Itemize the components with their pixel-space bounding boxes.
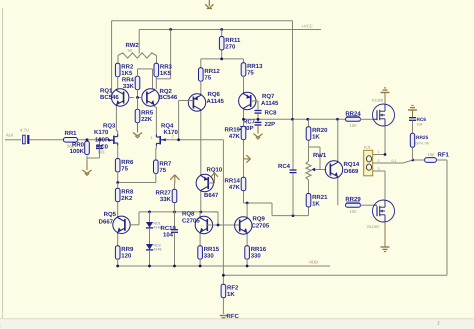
wire T right to RR13 [243, 59, 245, 68]
svg-text:RR8: RR8 [121, 189, 134, 196]
junction RQ9 collector node [246, 202, 249, 205]
mosfet J162 [367, 200, 395, 229]
wire RR27 top stub [174, 184, 176, 190]
wire RQ5 base jog [130, 212, 139, 225]
jfet RQ4 [156, 123, 178, 147]
wire RW2 left lead down [117, 56, 119, 64]
junction input node RR0 [86, 138, 89, 141]
svg-text:B647: B647 [204, 192, 219, 199]
power arrow RQ10 [211, 173, 218, 180]
svg-text:RR19: RR19 [225, 127, 241, 134]
svg-text:330: 330 [204, 253, 215, 260]
junction RQ6 collector node [199, 211, 202, 214]
junction drive rail RQ14 [336, 118, 339, 121]
resistor RR2 [115, 63, 134, 77]
sheet border bottom edge [0, 314, 474, 329]
svg-text:RR0: RR0 [72, 141, 85, 148]
pin label RQ4 drain [172, 135, 174, 139]
pin label wire 0.1 [392, 159, 397, 163]
junction bus RC10 [173, 265, 176, 268]
power arrow RR27 top [170, 175, 179, 184]
junction bus RR15 [199, 265, 202, 268]
junction drive rail RR20 [306, 118, 309, 121]
resistor RR1 [64, 130, 78, 148]
junction RR11 bottom [220, 58, 223, 61]
wire RQ3 drain [116, 131, 117, 134]
resistor RR16 [245, 246, 267, 260]
svg-text:1K: 1K [312, 134, 320, 141]
wire VCC feed down [156, 30, 170, 79]
wire RC6 to RR25 [412, 120, 414, 132]
wire RR11 top [221, 30, 223, 37]
svg-text:D669: D669 [344, 168, 359, 175]
svg-text:1W: 1W [428, 152, 434, 157]
wire sources rail [118, 174, 156, 183]
wire RW2 wiper up [138, 30, 140, 54]
svg-text:RQ3: RQ3 [103, 123, 116, 130]
capacitor RC10 [161, 212, 179, 266]
wire RQ6 collector down [200, 111, 202, 212]
svg-text:50: 50 [128, 48, 133, 53]
svg-text:2: 2 [378, 159, 380, 163]
svg-text:RF2: RF2 [227, 285, 239, 292]
svg-text:RR13: RR13 [247, 63, 263, 70]
junction lower rail RC4 [292, 214, 295, 217]
svg-text:100K: 100K [70, 148, 85, 155]
net label input [6, 133, 13, 138]
mosfet K1058 [372, 99, 395, 127]
svg-text:RFC: RFC [227, 313, 240, 320]
wire between diodes [149, 228, 151, 244]
svg-text:75: 75 [247, 70, 254, 77]
pin label 1 [378, 150, 380, 154]
svg-text:D667: D667 [99, 219, 114, 226]
resistor RR11 [219, 37, 241, 51]
fuse RF1 [425, 152, 450, 163]
svg-text:1: 1 [151, 136, 153, 140]
transistor RQ5 bias [99, 211, 131, 234]
capacitor RC4 [278, 119, 297, 215]
wire top loop right vertical [292, 21, 294, 120]
wire RR2 to RQ1 collector [117, 77, 119, 90]
svg-text:2SJ162: 2SJ162 [367, 225, 380, 229]
svg-text:RR7: RR7 [159, 160, 172, 167]
wire RR29 right [360, 204, 374, 206]
power arrow mid [244, 155, 251, 163]
wire RR6 bottom corner [117, 172, 119, 183]
junction drive rail bootstrap [291, 118, 294, 121]
wire RR3 to RQ2 collector [155, 77, 157, 90]
junction output node [412, 159, 415, 162]
potentiometer RW1 [306, 147, 327, 180]
wire RQ4 source [155, 146, 158, 160]
svg-text:RR20: RR20 [312, 127, 328, 134]
pin label RQ4 gate [151, 136, 153, 140]
svg-text:1K: 1K [312, 200, 320, 207]
svg-text:RQ6: RQ6 [208, 91, 221, 98]
svg-text:RR5: RR5 [141, 110, 154, 117]
wire RQ1 emitter to RQ3 [115, 106, 117, 131]
wire bottom bus [118, 265, 330, 267]
resistor RR21 [306, 194, 328, 208]
junction drive rail caps [257, 118, 260, 121]
transistor RQ1 [100, 88, 129, 107]
svg-text:0.1: 0.1 [392, 159, 397, 163]
capacitor RC2 input [20, 128, 29, 145]
svg-text:-VDD: -VDD [308, 260, 318, 265]
svg-text:1K: 1K [227, 291, 235, 298]
svg-text:AUI: AUI [6, 133, 13, 138]
svg-text:RQ14: RQ14 [344, 161, 360, 168]
ground input [82, 161, 91, 175]
svg-text:75: 75 [159, 167, 166, 174]
capacitor RC8 [255, 110, 278, 117]
junction bus RR9 [116, 265, 119, 268]
wire RR24 to gate [360, 118, 373, 120]
wire K1058 source [373, 127, 385, 155]
svg-text:2: 2 [172, 135, 174, 139]
resistor RR4 [122, 76, 140, 90]
power ground RFC [220, 316, 228, 318]
junction VCC feed [169, 28, 172, 31]
svg-text:RR1: RR1 [64, 130, 77, 137]
resistor RR12 [199, 68, 221, 82]
svg-text:RQ10: RQ10 [207, 167, 223, 174]
transistor RQ8 [182, 211, 213, 234]
net label +VCC [301, 24, 312, 29]
wire RW2 right lead down [156, 56, 158, 64]
wire top loop left vertical [111, 21, 113, 97]
wire connector pin2 [373, 160, 413, 163]
svg-text:75: 75 [121, 165, 128, 172]
wire output right loop [223, 160, 447, 275]
svg-text:100P: 100P [95, 137, 109, 144]
wire RR8 top [117, 183, 119, 189]
wire T left to RR12 [200, 59, 202, 68]
transistor RQ9 [235, 216, 270, 235]
wire lower rail [272, 215, 309, 217]
transistor RQ6 vas [188, 91, 224, 111]
svg-text:22P: 22P [265, 121, 276, 128]
capacitor RC0 [87, 137, 109, 159]
svg-text:RJ1: RJ1 [364, 146, 371, 150]
svg-text:RC8: RC8 [265, 110, 278, 117]
svg-text:RR21: RR21 [312, 194, 328, 201]
wire RR16 bottom [246, 259, 248, 266]
svg-text:C2705: C2705 [252, 223, 270, 230]
wire feedback from RQ4 gate [166, 139, 223, 141]
svg-text:1: 1 [378, 150, 380, 154]
transistor RQ14 driver [325, 161, 360, 178]
svg-text:RQ4: RQ4 [161, 123, 174, 130]
wire RQ1 base [129, 97, 134, 99]
svg-text:22K: 22K [141, 116, 153, 123]
net label RFC [227, 313, 240, 320]
svg-text:4148: 4148 [154, 248, 162, 252]
resistor RR14 [225, 177, 246, 191]
svg-text:+VCC: +VCC [301, 24, 312, 29]
wire RQ6 base [179, 101, 194, 140]
wire +VCC rail [139, 29, 321, 31]
wire RQ2 base [137, 97, 142, 99]
svg-text:RR27: RR27 [156, 190, 172, 197]
wire RQ7 base right [251, 101, 258, 110]
pin label 3 [378, 167, 380, 171]
diode RD1 [146, 222, 162, 230]
wire diode node to bases [212, 212, 218, 225]
svg-text:75: 75 [204, 75, 211, 82]
svg-text:104: 104 [163, 232, 174, 239]
wire RQ2 emitter to RQ4 [154, 106, 156, 107]
diode RD2 [146, 244, 162, 252]
wire drive rail [244, 118, 346, 120]
wire RQ8 emitter [199, 234, 201, 246]
ground RC7 [253, 125, 262, 139]
wire top loop horizontal [112, 20, 293, 22]
svg-text:BC546: BC546 [100, 94, 119, 101]
svg-text:RR2: RR2 [121, 64, 134, 71]
resistor RR0 [70, 141, 90, 155]
junction input node RC0 [98, 138, 101, 141]
svg-text:RC4: RC4 [278, 163, 291, 170]
wire bias rail [139, 211, 218, 213]
power bars -V J162 [381, 223, 390, 252]
sheet border left edge [2, 8, 4, 318]
svg-text:4.7U: 4.7U [20, 128, 29, 133]
wire RR20 top [308, 119, 310, 126]
junction sources rail [116, 181, 119, 184]
wire RR9 bottom [117, 259, 119, 266]
sheet corner mark [0, 321, 440, 329]
svg-text:RQ5: RQ5 [104, 211, 117, 218]
junction feedback tap [222, 274, 225, 277]
svg-text:104: 104 [417, 123, 423, 127]
junction RQ6 base feedback [177, 138, 180, 141]
svg-text:0R*4.7W: 0R*4.7W [416, 142, 430, 146]
wire RC8 to RC7 [257, 113, 259, 122]
svg-text:RQ9: RQ9 [253, 216, 266, 223]
wire RW1 to RR21 [308, 180, 310, 193]
resistor RR6 [115, 159, 134, 173]
jfet RQ3 [94, 123, 118, 146]
resistor RF2 [221, 284, 239, 298]
wire RF2 bottom [222, 298, 224, 314]
svg-text:RR9: RR9 [121, 246, 134, 253]
resistor RR19 [225, 126, 246, 140]
svg-text:RR3: RR3 [160, 64, 173, 71]
wire diode chain [149, 212, 151, 222]
svg-text:RR12: RR12 [204, 68, 220, 75]
svg-text:K170: K170 [94, 129, 109, 136]
junction RR11 top [220, 28, 223, 31]
svg-text:RQ2: RQ2 [160, 88, 173, 95]
resistor RR8 [115, 188, 134, 202]
wire RQ9 emitter [246, 234, 248, 246]
wire feedback vertical [222, 140, 224, 284]
wire RR12 to RQ6 [200, 81, 202, 94]
resistor RR5 [135, 109, 154, 123]
svg-text:1K5: 1K5 [160, 70, 172, 77]
svg-text:1K5: 1K5 [121, 70, 133, 77]
wire RR15 bottom [199, 259, 201, 266]
wire RQ3 source [117, 146, 119, 159]
transistor RQ10 b647 [196, 167, 223, 200]
power ground top right [408, 105, 417, 117]
svg-text:33K: 33K [123, 83, 135, 90]
wire RR14 bottom [244, 191, 273, 216]
junction source pin1 [384, 153, 387, 156]
wire cap to RR1 [29, 139, 63, 141]
capacitor RC6 [409, 117, 426, 127]
svg-text:3: 3 [378, 167, 380, 171]
wire RQ7 collector down [243, 110, 245, 126]
wire RF1 leads [419, 159, 448, 161]
wire RQ8 base out [207, 224, 239, 226]
power bars +V K1058 [381, 88, 390, 104]
wire RQ8 collector jog [199, 212, 201, 216]
wire RQ4 drain up [155, 107, 157, 134]
junction RC10 top [173, 211, 176, 214]
svg-text:A1145: A1145 [261, 100, 279, 107]
wire RR1 to node [78, 139, 109, 141]
svg-text:103: 103 [98, 150, 106, 155]
wire RR19 to arrow node [243, 140, 245, 177]
wire RQ14 emitter [337, 178, 339, 205]
wire RQ14 collector [337, 119, 339, 161]
connector RJ1 [364, 146, 373, 176]
resistor RR15 [198, 246, 220, 260]
wire RR20 to RW1 [308, 141, 310, 162]
wire RR25 bottom [413, 147, 419, 160]
junction drive rail RQ7 [242, 118, 245, 121]
junction bases corner [217, 224, 220, 227]
wire RR21 bottom [308, 208, 310, 216]
ground below RR5 [133, 123, 142, 138]
svg-text:A1145: A1145 [207, 98, 225, 105]
resistor RR29 [345, 196, 361, 214]
wire RR4 top loop [138, 69, 153, 89]
svg-text:33K: 33K [160, 196, 172, 203]
resistor RR20 [306, 127, 328, 141]
junction LTP bases [136, 96, 139, 99]
svg-text:100: 100 [350, 123, 358, 128]
resistor RR13 [241, 63, 263, 77]
wire RR8 to RQ5 [117, 202, 119, 216]
svg-text:47K: 47K [229, 184, 241, 191]
wire RQ9 collector [246, 203, 248, 217]
svg-text:RR4: RR4 [122, 77, 135, 84]
svg-text:RF1: RF1 [438, 152, 450, 159]
wire bases to RR5 [137, 98, 139, 110]
svg-text:270: 270 [225, 43, 236, 50]
resistor RR7 [154, 160, 173, 174]
svg-text:.: . [0, 323, 1, 329]
resistor RR24 [345, 110, 361, 128]
svg-text:RQ7: RQ7 [262, 93, 275, 100]
svg-text:C2705: C2705 [182, 218, 200, 225]
svg-text:RR11: RR11 [225, 37, 241, 44]
wire RD2 bottom [149, 250, 151, 266]
svg-text:RR16: RR16 [251, 246, 267, 253]
resistor RR25 [410, 133, 430, 147]
capacitor RC7 [239, 119, 275, 132]
transistor RQ2 [142, 88, 178, 106]
svg-text:47K: 47K [229, 133, 241, 140]
resistor RR3 [154, 63, 173, 77]
svg-text:RR25: RR25 [416, 135, 429, 141]
wire RQ10 base [208, 180, 214, 183]
potentiometer RW2 [118, 42, 157, 58]
wire RR0 bottom [86, 156, 88, 161]
wire RW1 wiper to RQ14 base [320, 169, 326, 171]
svg-text:BC546: BC546 [159, 94, 178, 101]
svg-text:K1058: K1058 [372, 99, 383, 103]
svg-text:RC10: RC10 [161, 225, 177, 232]
svg-text:100: 100 [350, 209, 358, 214]
svg-text:330: 330 [251, 253, 262, 260]
pin label 2 [378, 159, 380, 163]
svg-text:RR6: RR6 [121, 159, 134, 166]
wire RR4 to base node [137, 90, 139, 98]
junction diode top [148, 211, 151, 214]
svg-text:RQ8: RQ8 [182, 211, 195, 218]
wire input stub [5, 139, 21, 141]
transistor RQ7 vas [239, 92, 279, 109]
wire RR11 bottom T [201, 51, 244, 59]
svg-text:RR15: RR15 [204, 246, 220, 253]
wire RR27 to RC10 [174, 203, 176, 212]
svg-text:RR14: RR14 [225, 178, 241, 185]
svg-text:2K2: 2K2 [121, 195, 133, 202]
power port arrow +V top [205, 0, 213, 9]
svg-text:RQ1: RQ1 [100, 88, 113, 95]
wire J162 drain [373, 171, 385, 200]
resistor RR27 [156, 189, 177, 203]
svg-text:120: 120 [121, 253, 132, 260]
wire RR13 to RQ7 [243, 76, 245, 93]
net label -VDD [308, 260, 318, 265]
resistor RR9 [115, 246, 134, 260]
junction bus RD2 [148, 265, 151, 268]
wire RQ5 emitter [117, 234, 119, 247]
junction bus RR16 [246, 265, 249, 268]
